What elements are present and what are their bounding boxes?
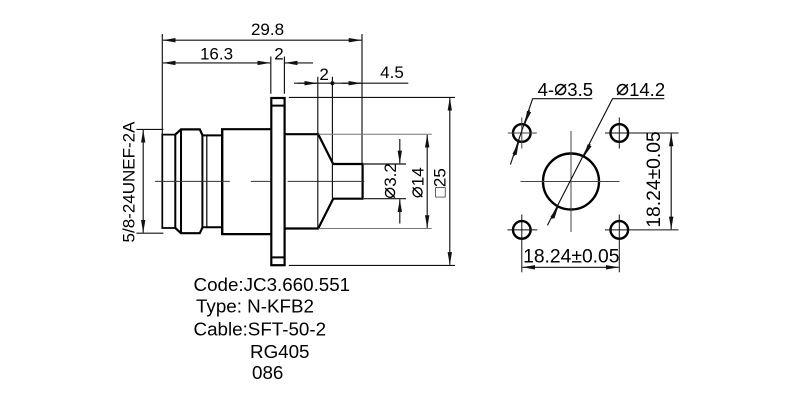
svg-text:4-⌀3.5: 4-⌀3.5 <box>538 75 593 100</box>
svg-text:⌀14.2: ⌀14.2 <box>616 75 665 100</box>
svg-text:18.24±0.05: 18.24±0.05 <box>644 131 665 227</box>
svg-text:5/8-24UNEF-2A: 5/8-24UNEF-2A <box>120 121 139 243</box>
svg-text:□25: □25 <box>431 168 450 197</box>
svg-text:4.5: 4.5 <box>380 63 404 82</box>
svg-text:086: 086 <box>252 362 283 383</box>
svg-text:⌀3.2: ⌀3.2 <box>378 163 400 199</box>
svg-text:2: 2 <box>274 45 283 64</box>
svg-text:29.8: 29.8 <box>251 20 284 39</box>
svg-text:Cable:SFT-50-2: Cable:SFT-50-2 <box>194 318 327 339</box>
svg-text:RG405: RG405 <box>250 341 310 362</box>
svg-text:2: 2 <box>319 65 328 84</box>
svg-text:Type: N-KFB2: Type: N-KFB2 <box>196 296 314 317</box>
svg-text:⌀14: ⌀14 <box>406 167 428 198</box>
svg-text:Code:JC3.660.551: Code:JC3.660.551 <box>194 274 351 295</box>
svg-text:18.24±0.05: 18.24±0.05 <box>523 246 619 267</box>
svg-text:16.3: 16.3 <box>200 45 233 64</box>
